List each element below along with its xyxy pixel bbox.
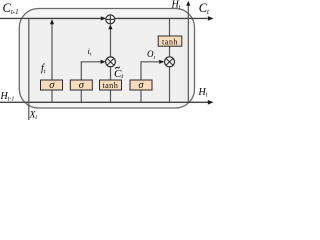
svg-text:Ht: Ht — [198, 87, 208, 99]
svg-text:σ: σ — [49, 80, 55, 91]
svg-text:Ct: Ct — [199, 1, 210, 16]
svg-text:tanh: tanh — [102, 81, 118, 90]
svg-text:Xt: Xt — [29, 110, 38, 120]
svg-text:Ct-1: Ct-1 — [3, 1, 19, 16]
svg-text:σ: σ — [138, 80, 144, 91]
svg-text:Ht-1: Ht-1 — [0, 91, 14, 103]
svg-text:Ht: Ht — [171, 0, 181, 11]
svg-text:σ: σ — [79, 80, 85, 91]
svg-text:tanh: tanh — [162, 37, 178, 46]
